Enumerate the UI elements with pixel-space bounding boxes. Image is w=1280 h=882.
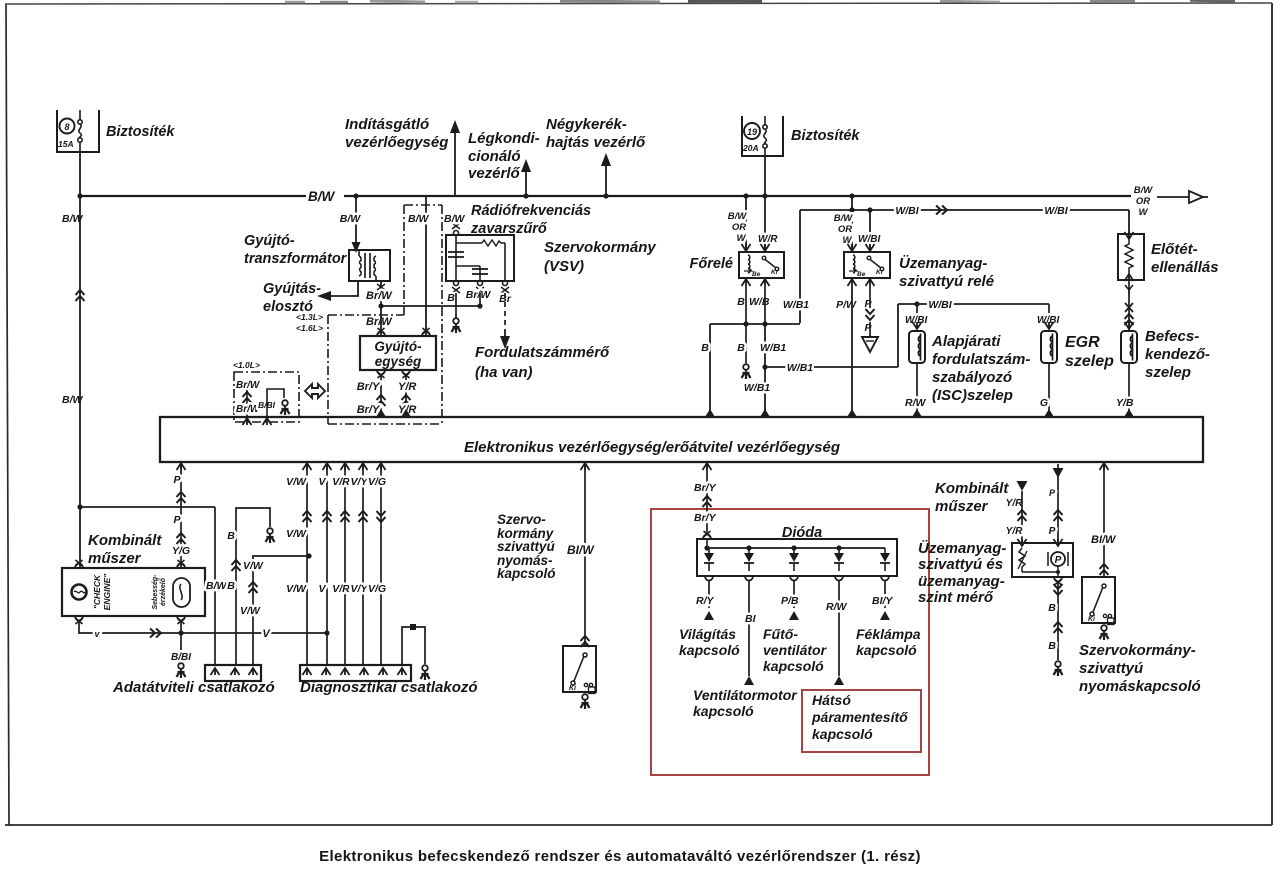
svg-text:P: P — [864, 298, 872, 310]
fuel level sender — [1019, 548, 1025, 572]
svg-text:páramentesítő: páramentesítő — [811, 709, 908, 725]
svg-text:(ha van): (ha van) — [475, 364, 533, 381]
wire B/W bus to ignition unit — [425, 196, 427, 336]
svg-text:Diagnosztikai csatlakozó: Diagnosztikai csatlakozó — [300, 679, 478, 696]
connector marker P — [1057, 464, 1059, 543]
svg-text:B/W: B/W — [444, 213, 466, 225]
svg-text:Ki: Ki — [876, 269, 883, 276]
svg-text:Ki: Ki — [771, 269, 778, 276]
bus right arrow continuation — [1157, 196, 1189, 198]
svg-text:transzformátor: transzformátor — [244, 251, 348, 267]
svg-text:V/W: V/W — [243, 560, 264, 572]
wire bus to main relay B/W OR W — [743, 193, 748, 198]
wire/arrow to Légkondicionáló vezérlő — [525, 170, 527, 196]
svg-text:Y/R: Y/R — [398, 381, 416, 393]
svg-text:(VSV): (VSV) — [544, 258, 584, 275]
wire Br to tachometer (dashed) — [504, 293, 506, 330]
svg-text:v: v — [94, 629, 100, 639]
svg-text:G: G — [1040, 397, 1048, 409]
svg-text:vezérlőegység: vezérlőegység — [345, 134, 448, 151]
svg-text:B: B — [447, 292, 455, 304]
svg-text:V/Y: V/Y — [351, 583, 369, 595]
meter terminals — [75, 564, 83, 569]
svg-text:Légkondi-: Légkondi- — [468, 130, 540, 147]
fuse F1 rating circle — [60, 119, 75, 134]
svg-text:Fűtő-: Fűtő- — [763, 626, 798, 642]
svg-text:Br/Y: Br/Y — [694, 512, 717, 524]
RF filter bottom terminals — [454, 281, 459, 286]
wire B to ground — [745, 324, 747, 363]
wire W/BI line — [800, 209, 1129, 211]
svg-text:Br/W: Br/W — [236, 380, 261, 391]
wire P to connector arrow — [869, 286, 871, 308]
svg-text:szabályozó: szabályozó — [932, 369, 1012, 386]
fuel gauge + pump box — [1012, 543, 1073, 577]
connector marker Y/R — [1017, 481, 1028, 491]
svg-text:V/R: V/R — [332, 476, 350, 488]
pressure switch box — [563, 646, 596, 692]
svg-text:Ventilátormotor: Ventilátormotor — [693, 687, 798, 703]
svg-text:kapcsoló: kapcsoló — [856, 642, 917, 658]
wire P/W to ECU — [851, 286, 853, 417]
svg-text:BI/Y: BI/Y — [872, 595, 893, 607]
svg-text:EGR: EGR — [1065, 334, 1100, 351]
main relay box Főrelé — [739, 252, 784, 278]
wire W/B1 up to W/BI line — [897, 304, 899, 367]
svg-text:B: B — [737, 342, 745, 354]
wire Br/W filter to Br/W line — [479, 293, 481, 306]
speed sensor symbol — [173, 578, 190, 607]
svg-text:vezérlő: vezérlő — [468, 165, 521, 182]
svg-text:R/Y: R/Y — [696, 595, 715, 607]
svg-text:B/W: B/W — [1134, 185, 1154, 196]
svg-text:kapcsoló: kapcsoló — [679, 642, 740, 658]
wire bus to ignition transformer — [353, 193, 358, 198]
fuel pump relay internals — [853, 255, 855, 260]
svg-text:műszer: műszer — [935, 498, 989, 515]
svg-text:B/BI: B/BI — [171, 652, 191, 663]
wire B/W corner to data link connector — [80, 506, 215, 508]
svg-text:V: V — [318, 583, 326, 595]
RF filter box — [446, 235, 514, 281]
svg-text:szelep: szelep — [1145, 364, 1191, 381]
svg-text:W/B1: W/B1 — [783, 299, 809, 311]
wire W/BI to EGR valve — [1048, 304, 1050, 326]
svg-text:OR: OR — [1136, 196, 1150, 207]
svg-text:Be: Be — [752, 271, 761, 278]
svg-text:ventilátor: ventilátor — [763, 642, 828, 658]
svg-text:P: P — [173, 514, 181, 526]
svg-text:B: B — [227, 530, 235, 542]
svg-text:V/W: V/W — [240, 605, 261, 617]
svg-text:OR: OR — [732, 222, 746, 233]
svg-text:P/W: P/W — [836, 299, 857, 311]
diagnostic connector ground loop — [402, 627, 425, 665]
svg-text:Biztosíték: Biztosíték — [791, 128, 860, 144]
svg-text:Y/R: Y/R — [1006, 498, 1023, 509]
left arrowhead — [317, 291, 331, 301]
fuel pump relay box — [844, 252, 890, 278]
svg-text:Be: Be — [857, 271, 866, 278]
injector solenoid valve — [1121, 331, 1137, 363]
relay bottom terminals — [848, 279, 857, 286]
svg-text:kapcsoló: kapcsoló — [763, 658, 824, 674]
svg-text:Y/R: Y/R — [1006, 526, 1023, 537]
wire B/W left vertical — [79, 196, 81, 568]
right pressure switch box — [1082, 577, 1115, 623]
svg-text:OR: OR — [838, 224, 852, 235]
svg-text:Br/Y: Br/Y — [357, 404, 381, 416]
wire/arrow to Indításgátló vezérlőegység — [454, 131, 456, 196]
switch wires below diode block — [708, 580, 710, 608]
wire joint horizontal — [710, 323, 800, 325]
RF filter internals — [455, 236, 457, 281]
svg-text:P: P — [1049, 526, 1056, 537]
svg-text:szivattyú: szivattyú — [497, 539, 556, 554]
wire B with ground loop — [236, 508, 270, 665]
svg-text:R/W: R/W — [826, 601, 848, 613]
svg-text:Y/B: Y/B — [1116, 397, 1134, 409]
svg-text:Üzemanyag-: Üzemanyag- — [899, 255, 987, 272]
svg-text:Világítás: Világítás — [679, 626, 736, 642]
wires ignition unit to ECU Br/Y Y/R — [380, 374, 382, 417]
wire B gauge to ground — [1054, 577, 1062, 582]
svg-text:Ki: Ki — [569, 685, 577, 692]
svg-text:Féklámpa: Féklámpa — [856, 626, 921, 642]
svg-text:P: P — [173, 474, 181, 486]
svg-text:W/B: W/B — [749, 296, 770, 308]
wire W/B1 vertical from top line — [799, 210, 801, 323]
svg-text:P: P — [1055, 555, 1062, 566]
svg-text:B: B — [737, 296, 745, 308]
svg-text:Szervokormány-: Szervokormány- — [1079, 642, 1196, 659]
svg-text:B/W: B/W — [408, 213, 430, 225]
fuse F1 element — [78, 120, 82, 124]
svg-text:Fordulatszámmérő: Fordulatszámmérő — [475, 344, 610, 361]
svg-text:V: V — [262, 628, 271, 640]
svg-text:Br/W: Br/W — [466, 289, 492, 301]
relay internals — [748, 255, 750, 260]
svg-text:B: B — [1048, 602, 1056, 614]
svg-text:kapcsoló: kapcsoló — [497, 566, 556, 581]
svg-text:Kombinált: Kombinált — [935, 480, 1009, 497]
svg-text:Br/Y: Br/Y — [357, 381, 381, 393]
svg-text:W/B1: W/B1 — [744, 382, 770, 394]
wire transformer out Br/W — [380, 281, 382, 306]
engine variant boundary 1.3L/1.6L dash-dot — [404, 204, 442, 206]
wire B down to ECU — [709, 324, 711, 417]
v signal wire — [79, 620, 327, 633]
data link connector Adatátviteli csatlakozó — [205, 665, 261, 681]
svg-text:B: B — [1048, 640, 1056, 652]
svg-text:szivattyú és: szivattyú és — [918, 556, 1003, 573]
svg-text:Szervo-: Szervo- — [497, 512, 546, 527]
wire BI/W ECU to pressure switch — [584, 462, 586, 646]
svg-text:V/W: V/W — [286, 528, 307, 540]
svg-text:üzemanyag-: üzemanyag- — [918, 573, 1005, 590]
svg-text:V/G: V/G — [368, 583, 386, 595]
wire bus to fuel pump relay — [849, 193, 854, 198]
wire W/BI to ISC valve — [916, 304, 918, 326]
diodes D1-D5 — [704, 553, 714, 562]
svg-text:P/B: P/B — [781, 595, 799, 607]
ignition unit box Gyújtó-egység — [360, 336, 436, 370]
svg-text:Sebesség-: Sebesség- — [152, 574, 159, 610]
wire P from ECU to meter — [180, 462, 182, 568]
svg-text:B/W: B/W — [834, 213, 854, 224]
svg-text:Br/Y: Br/Y — [694, 482, 717, 494]
svg-text:egység: egység — [375, 354, 422, 369]
svg-text:szint mérő: szint mérő — [918, 589, 994, 606]
svg-text:B/W: B/W — [206, 580, 228, 592]
ECU bottom terminals — [177, 463, 186, 470]
svg-text:W/B1: W/B1 — [787, 362, 813, 374]
svg-text:Gyújtás-: Gyújtás- — [263, 281, 321, 297]
svg-text:BI/W: BI/W — [567, 543, 595, 557]
wire W/BI to dropping resistor — [1128, 210, 1130, 234]
wire fuse F1 to bus — [79, 152, 81, 196]
svg-text:kendező-: kendező- — [1145, 346, 1210, 363]
svg-text:W: W — [1139, 207, 1149, 218]
svg-text:szelep: szelep — [1065, 353, 1114, 370]
svg-text:<1.6L>: <1.6L> — [296, 323, 323, 333]
svg-text:Y/G: Y/G — [172, 545, 190, 557]
diagnostic wires V/W V V/R V/Y V/G — [306, 462, 308, 665]
fuel pump symbol — [1051, 552, 1065, 566]
equivalence double arrow — [305, 384, 325, 398]
fuse F2 element — [763, 125, 767, 129]
svg-text:V/W: V/W — [286, 476, 307, 488]
svg-text:BI: BI — [745, 613, 757, 625]
red highlight box inner Hátsó páramentesítő — [802, 690, 921, 752]
svg-text:<1.0L>: <1.0L> — [233, 360, 260, 370]
diagnostic connector Diagnosztikai csatlakozó — [300, 665, 411, 681]
right switch ground — [1101, 625, 1107, 631]
wire W/B1 down to ECU — [764, 324, 766, 417]
svg-text:B/W: B/W — [308, 189, 336, 204]
svg-text:B: B — [227, 580, 235, 592]
wire B relay to joint — [745, 286, 747, 324]
frame border — [6, 4, 9, 825]
svg-text:szivattyú: szivattyú — [1079, 660, 1143, 677]
fuse F2 19 20A holder — [742, 116, 783, 156]
svg-text:15A: 15A — [58, 139, 74, 149]
wire W/B1 branch horizontal — [765, 366, 898, 368]
svg-text:hajtás vezérlő: hajtás vezérlő — [546, 134, 646, 151]
svg-text:műszer: műszer — [88, 550, 142, 567]
svg-text:kapcsoló: kapcsoló — [693, 703, 754, 719]
wire B to ground — [455, 293, 457, 318]
bus wire B/W horizontal — [80, 195, 306, 197]
svg-text:W/BI: W/BI — [928, 299, 952, 311]
ISC solenoid valve — [909, 331, 925, 363]
svg-text:BI/W: BI/W — [1091, 534, 1117, 546]
transformer T1 box — [349, 250, 390, 281]
svg-text:(ISC)szelep: (ISC)szelep — [932, 387, 1013, 404]
red highlight box outer — [651, 509, 929, 775]
svg-text:Rádiófrekvenciás: Rádiófrekvenciás — [471, 203, 591, 219]
open connector arrow down — [862, 337, 878, 352]
ECU top terminals — [376, 409, 386, 417]
svg-text:P: P — [1049, 488, 1056, 498]
svg-text:W/R: W/R — [758, 234, 778, 245]
wire Y/B to ECU — [1128, 363, 1130, 417]
svg-text:Gyújtó-: Gyújtó- — [374, 339, 422, 354]
wire B/BI meter to ground — [180, 620, 182, 662]
dropping resistor box Előtét-ellenállás — [1118, 234, 1144, 280]
gauge internal join — [1022, 571, 1058, 573]
RF filter top terminal — [454, 231, 459, 236]
svg-text:B/W: B/W — [62, 394, 84, 406]
svg-text:W: W — [737, 233, 747, 244]
combination meter box Kombinált műszer — [62, 568, 205, 616]
svg-text:R/W: R/W — [905, 397, 927, 409]
svg-text:"CHECK: "CHECK — [92, 574, 102, 609]
svg-text:V/R: V/R — [332, 583, 350, 595]
svg-text:W/BI: W/BI — [858, 234, 880, 245]
svg-text:Elektronikus befecskendező ren: Elektronikus befecskendező rendszer és a… — [319, 848, 921, 865]
svg-text:Befecs-: Befecs- — [1145, 328, 1199, 345]
svg-text:kapcsoló: kapcsoló — [812, 726, 873, 742]
svg-text:érzékelő: érzékelő — [160, 577, 167, 606]
svg-text:20A: 20A — [742, 143, 759, 153]
wire resistor to injector valve — [1128, 280, 1130, 330]
svg-text:Biztosíték: Biztosíték — [106, 124, 175, 140]
EGR solenoid valve — [1041, 331, 1057, 363]
svg-text:V/Y: V/Y — [351, 476, 369, 488]
diode rail — [706, 539, 708, 548]
transformer T1 windings — [364, 253, 366, 278]
wire G EGR to ECU — [1048, 363, 1050, 417]
svg-text:B/W: B/W — [62, 213, 84, 225]
svg-text:Indításgátló: Indításgátló — [345, 116, 429, 133]
svg-text:Hátsó: Hátsó — [812, 692, 851, 708]
cut-off text remnants top — [285, 1, 305, 4]
svg-text:Adatátviteli csatlakozó: Adatátviteli csatlakozó — [112, 679, 275, 696]
svg-text:B/W: B/W — [728, 211, 748, 222]
wire Br/Y ECU to diode block — [706, 462, 708, 533]
svg-text:V/W: V/W — [286, 583, 307, 595]
wire BI/W ECU to right pressure switch — [1103, 462, 1105, 577]
svg-text:Elektronikus vezérlőegység/erő: Elektronikus vezérlőegység/erőátvitel ve… — [464, 439, 840, 456]
svg-text:B: B — [701, 342, 709, 354]
switch ground — [582, 694, 588, 700]
svg-text:Br/W: Br/W — [366, 290, 393, 302]
svg-text:ellenállás: ellenállás — [1151, 259, 1219, 276]
open arrowhead right — [1189, 191, 1203, 203]
svg-text:V/G: V/G — [368, 476, 386, 488]
svg-text:Alapjárati: Alapjárati — [931, 333, 1001, 350]
svg-text:Üzemanyag-: Üzemanyag- — [918, 540, 1006, 557]
wire Br/W down to ignition unit — [380, 306, 382, 336]
svg-text:ENGINE": ENGINE" — [102, 573, 112, 611]
wire Br/W horizontal — [381, 305, 480, 307]
svg-text:<1.3L>: <1.3L> — [296, 312, 323, 322]
svg-text:Szervokormány: Szervokormány — [544, 239, 656, 256]
svg-text:19: 19 — [747, 127, 757, 137]
svg-text:W/BI: W/BI — [1044, 205, 1068, 217]
svg-text:Gyújtó-: Gyújtó- — [244, 233, 295, 249]
svg-text:B/W: B/W — [340, 213, 362, 225]
svg-text:zavarszűrő: zavarszűrő — [470, 221, 548, 237]
wire V/W branch — [253, 556, 309, 665]
svg-text:Ki: Ki — [1088, 616, 1096, 623]
wire fuse F2 to bus and main relay — [764, 156, 766, 248]
CHECK ENGINE lamp — [72, 585, 87, 600]
wire W/BI to relay — [869, 210, 871, 248]
svg-text:szivattyú relé: szivattyú relé — [899, 273, 994, 290]
svg-text:Kombinált: Kombinált — [88, 532, 162, 549]
svg-text:cionáló: cionáló — [468, 148, 521, 165]
svg-text:Főrelé: Főrelé — [689, 256, 733, 272]
fuse F1 8 15A holder — [57, 110, 99, 152]
svg-text:Br/W: Br/W — [366, 316, 393, 328]
relay bottom terminals — [742, 279, 751, 286]
svg-text:nyomáskapcsoló: nyomáskapcsoló — [1079, 678, 1201, 695]
wire/arrow to Négykerékhajtás vezérlő — [605, 164, 607, 196]
fuse F2 rating circle — [744, 123, 760, 139]
svg-text:P: P — [864, 322, 872, 334]
svg-text:Előtét-: Előtét- — [1151, 241, 1198, 258]
svg-text:Négykerék-: Négykerék- — [546, 116, 627, 133]
svg-text:W/BI: W/BI — [895, 205, 919, 217]
ECU box Elektronikus vezérlőegység — [160, 417, 1203, 462]
svg-text:W/B1: W/B1 — [760, 342, 786, 354]
svg-text:V: V — [318, 476, 326, 488]
svg-text:8: 8 — [64, 122, 69, 132]
svg-text:fordulatszám-: fordulatszám- — [932, 351, 1030, 368]
wire R/W ISC to ECU — [916, 363, 918, 417]
